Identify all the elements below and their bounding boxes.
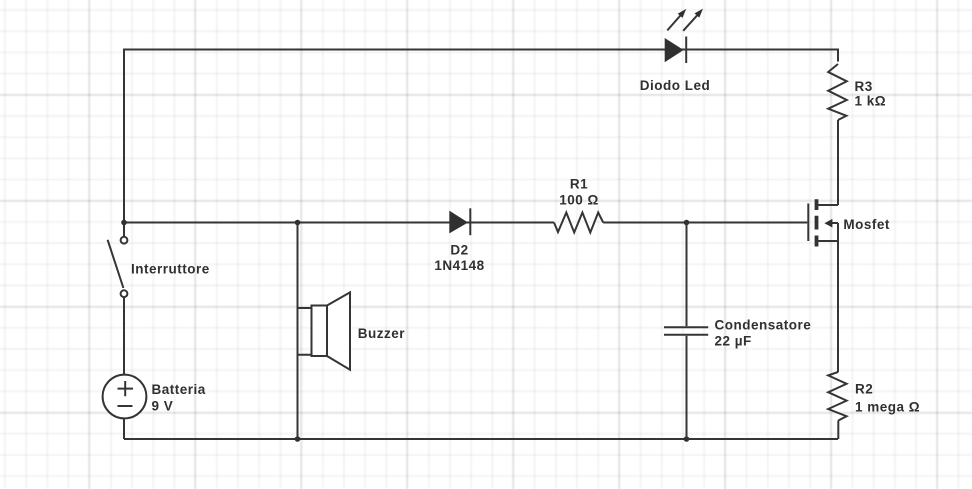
svg-text:R1: R1 (570, 176, 588, 191)
node junction left (battery branch / main rail) (121, 220, 127, 226)
svg-text:1 kΩ: 1 kΩ (855, 94, 887, 109)
diode LED D1 (665, 37, 687, 64)
node junction capacitor bottom (684, 436, 690, 442)
wire capacitor branch lower (686, 336, 688, 439)
svg-text:R2: R2 (855, 382, 873, 397)
svg-text:9 V: 9 V (152, 399, 174, 414)
capacitor C1 (664, 327, 708, 335)
svg-text:R3: R3 (855, 79, 873, 94)
wire bottom rail (124, 438, 838, 440)
node junction capacitor top (684, 220, 690, 226)
drain lead (817, 204, 838, 206)
svg-text:Condensatore: Condensatore (715, 318, 812, 333)
svg-text:D2: D2 (450, 243, 468, 258)
battery source B1 (103, 375, 147, 419)
wire R3 to mosfet drain (837, 120, 839, 205)
LED arrow 1 (667, 9, 686, 31)
svg-text:22 µF: 22 µF (715, 334, 752, 349)
svg-text:100 Ω: 100 Ω (559, 193, 599, 208)
wire main horizontal rail (124, 222, 807, 224)
mosfet Q1 (808, 199, 838, 246)
wire switch top stub (123, 223, 125, 237)
interruttore switch S1 (108, 237, 128, 297)
wire R2 to bottom rail (837, 421, 839, 440)
buzzer LS1 (298, 292, 351, 369)
source lead (817, 240, 838, 242)
svg-text:Batteria: Batteria (152, 382, 206, 397)
node junction buzzer bottom (295, 436, 301, 442)
gate bar (807, 204, 809, 242)
wire switch to battery (123, 297, 125, 374)
resistor R3 (828, 64, 847, 120)
wire top rail (124, 50, 838, 223)
svg-text:Mosfet: Mosfet (843, 217, 890, 232)
svg-text:1 mega Ω: 1 mega Ω (855, 400, 920, 415)
wire capacitor branch upper (686, 223, 688, 327)
diode D2 (449, 208, 470, 235)
svg-text:Buzzer: Buzzer (358, 326, 406, 341)
bulk arrow (831, 223, 838, 241)
svg-text:1N4148: 1N4148 (434, 258, 484, 273)
wire mosfet source to R2 (837, 241, 839, 372)
resistor R2 (828, 372, 846, 421)
wire buzzer branch vertical (297, 223, 299, 440)
LED arrow 2 (683, 9, 703, 31)
resistor R1 (554, 213, 603, 233)
node junction buzzer top (295, 220, 301, 226)
svg-text:Interruttore: Interruttore (131, 262, 210, 277)
svg-text:Diodo Led: Diodo Led (640, 78, 711, 93)
channel bar dashes (815, 199, 819, 246)
wire battery to bottom rail (123, 418, 125, 439)
